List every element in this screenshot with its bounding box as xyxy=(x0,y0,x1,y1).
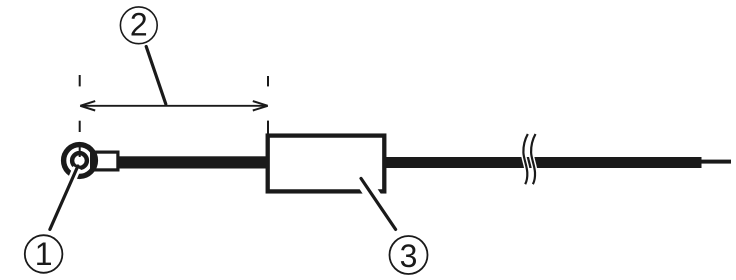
wire bare end xyxy=(702,160,732,164)
callout circle 2 xyxy=(120,7,157,44)
svg-text:1: 1 xyxy=(35,236,53,272)
leader for callout 1 xyxy=(50,166,78,229)
wire W2 (block to break) xyxy=(382,157,702,168)
dimension arrowhead left xyxy=(80,101,95,110)
leader for callout 1 halo xyxy=(51,168,78,230)
leader for callout 3 halo xyxy=(359,174,397,230)
ring terminal outer ring xyxy=(64,145,96,177)
extension line right (dashed) xyxy=(267,76,269,86)
break symbol halo xyxy=(523,134,527,184)
leader for callout 3 xyxy=(361,178,396,229)
wire W1 (terminal to block) xyxy=(117,156,269,168)
svg-text:2: 2 xyxy=(130,6,148,42)
callout circle 1 xyxy=(25,235,63,273)
block (component 3) xyxy=(268,136,385,192)
svg-text:3: 3 xyxy=(400,238,418,274)
ring terminal inner ring xyxy=(72,153,87,168)
terminal center mark xyxy=(79,147,81,158)
leader for callout 2 xyxy=(146,47,166,105)
ring terminal tab xyxy=(92,152,118,170)
break symbol marks xyxy=(523,134,527,184)
dimension arrowhead right xyxy=(253,101,268,110)
extension line left (dashed) xyxy=(79,75,81,86)
dimension line xyxy=(81,105,267,107)
callout circle 3 xyxy=(390,236,428,274)
